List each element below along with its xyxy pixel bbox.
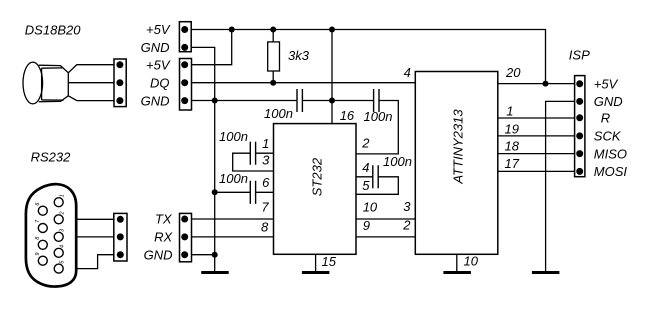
svg-text:1: 1 bbox=[506, 103, 513, 118]
wire resistor top lead bbox=[272, 30, 274, 42]
svg-text:5: 5 bbox=[362, 178, 370, 193]
capacitor C1 100n (ST232 pins 1-3) bbox=[250, 142, 255, 165]
wire TX row to ST232 pin 7 bbox=[185, 218, 274, 220]
wire ATTINY pin 1 to ISP R bbox=[498, 117, 580, 119]
node junction GND row left bbox=[212, 98, 218, 104]
wire ST232 pin 15 ground stub bbox=[315, 254, 317, 271]
capacitor C5 100n (VCC to GND decoupling) bbox=[297, 89, 302, 112]
node junction resistor top on +5V rail bbox=[270, 27, 276, 33]
svg-text:1: 1 bbox=[60, 194, 66, 197]
svg-text:DS18B20: DS18B20 bbox=[25, 22, 81, 37]
svg-text:3k3: 3k3 bbox=[288, 48, 310, 63]
wire C4 to GND bbox=[215, 191, 251, 193]
svg-text:SCK: SCK bbox=[594, 129, 622, 144]
svg-text:2: 2 bbox=[361, 136, 370, 151]
svg-text:GND: GND bbox=[594, 94, 623, 109]
svg-text:2: 2 bbox=[402, 217, 411, 232]
ground (ATTINY pin 10) bbox=[443, 271, 471, 274]
svg-text:7: 7 bbox=[261, 200, 269, 215]
node junction VCC at pin16 bbox=[329, 98, 335, 104]
wire ST232 pin 6 to C4 bbox=[256, 191, 274, 193]
svg-text:100n: 100n bbox=[219, 171, 248, 186]
wire DB9 pin 2 to plug bbox=[59, 218, 121, 220]
svg-text:20: 20 bbox=[505, 65, 521, 80]
wire GND row RS232 bbox=[185, 254, 215, 256]
wire DB9 pin 3 to plug bbox=[59, 236, 121, 238]
connector J3 TX/RX/GND bbox=[180, 213, 192, 261]
node junction on +5V rail at 3-pin connector bbox=[229, 27, 235, 33]
svg-text:ISP: ISP bbox=[569, 48, 590, 63]
resistor R1 3k3 bbox=[268, 42, 310, 71]
ground (ST232 pin 15) bbox=[302, 271, 330, 274]
wire ATTINY pin 10 ground stub bbox=[456, 254, 458, 271]
connector ISP header bbox=[575, 76, 585, 177]
svg-text:+5V: +5V bbox=[146, 22, 171, 37]
svg-text:3: 3 bbox=[403, 199, 411, 214]
wire C2 elbow to ST232 pin 5 bbox=[356, 177, 398, 195]
svg-text:+5V: +5V bbox=[146, 57, 171, 72]
wire C1 elbow to ST232 pin 3 bbox=[233, 153, 274, 171]
svg-text:2: 2 bbox=[60, 211, 66, 215]
svg-text:GND: GND bbox=[141, 40, 170, 55]
wire ST232 pin 9 to ATTINY pin 2 bbox=[356, 236, 415, 238]
svg-text:RS232: RS232 bbox=[31, 150, 72, 165]
svg-text:18: 18 bbox=[505, 139, 520, 154]
svg-text:1: 1 bbox=[262, 136, 269, 151]
DS18B20 sensor package bbox=[23, 62, 68, 104]
svg-text:3: 3 bbox=[262, 152, 270, 167]
svg-text:TX: TX bbox=[155, 212, 173, 227]
DB9 RS232 connector body bbox=[26, 184, 76, 286]
ground (ISP GND) bbox=[532, 271, 560, 274]
svg-text:RX: RX bbox=[154, 230, 173, 245]
wire DS18B20 lead 3 bbox=[68, 96, 120, 101]
wire RX row to ST232 pin 8 bbox=[185, 236, 274, 238]
svg-text:10: 10 bbox=[464, 254, 479, 269]
wire ATTINY pin 17 to ISP MOSI bbox=[498, 170, 580, 172]
svg-text:8: 8 bbox=[261, 219, 269, 234]
wire resistor bottom lead bbox=[272, 71, 274, 83]
svg-text:100n: 100n bbox=[364, 109, 393, 124]
wire ST232 pin 16 vertical bbox=[331, 30, 333, 124]
node junction RS232 GND bbox=[212, 252, 218, 258]
svg-text:16: 16 bbox=[340, 108, 355, 123]
wire +5V top rail bbox=[185, 30, 546, 84]
wire ST232 pin 10 to ATTINY pin 3 bbox=[356, 218, 415, 220]
wire ATTINY pin 18 to ISP MISO bbox=[498, 153, 580, 155]
capacitor C3 100n (VCC to ST232 pin 2) bbox=[374, 89, 379, 112]
ground (RS232 section) bbox=[201, 271, 229, 274]
svg-text:17: 17 bbox=[505, 156, 520, 171]
wire DS18B20 lead 2 bbox=[68, 82, 120, 84]
wire ST232 pin 4 to C2 bbox=[356, 176, 373, 178]
svg-text:ATTINY2313: ATTINY2313 bbox=[450, 109, 465, 185]
wire ATTINY pin 20 to ISP +5V bbox=[498, 83, 580, 85]
svg-text:+5V: +5V bbox=[594, 77, 619, 92]
IC U1 ST232 (RS232 driver) bbox=[274, 124, 357, 255]
svg-text:15: 15 bbox=[322, 254, 337, 269]
node junction resistor bottom on DQ bbox=[270, 80, 276, 86]
svg-text:R: R bbox=[601, 111, 610, 126]
wire C3 to ST232 pin 2 bbox=[356, 101, 398, 154]
node junction pin16 vertical on +5V rail bbox=[329, 27, 335, 33]
wire ATTINY pin 19 to ISP SCK bbox=[498, 135, 580, 137]
svg-text:4: 4 bbox=[404, 65, 411, 80]
svg-text:100n: 100n bbox=[219, 129, 248, 144]
connector DS18B20 plug bbox=[114, 59, 126, 107]
svg-text:19: 19 bbox=[505, 122, 519, 137]
svg-text:9: 9 bbox=[363, 218, 370, 233]
wire +5V elbow to 3-pin connector bbox=[185, 30, 232, 65]
svg-text:MOSI: MOSI bbox=[594, 164, 628, 179]
svg-text:MISO: MISO bbox=[594, 146, 627, 161]
svg-text:100n: 100n bbox=[264, 106, 293, 121]
DB9 pin holes column 1 bbox=[38, 198, 63, 273]
capacitor C2 100n (ST232 pins 4-5) bbox=[373, 165, 378, 188]
svg-text:4: 4 bbox=[60, 245, 66, 248]
wire DB9 pin 5 to plug GND bbox=[59, 255, 121, 269]
svg-text:4: 4 bbox=[362, 160, 369, 175]
svg-text:GND: GND bbox=[141, 93, 170, 108]
wire DS18B20 lead 1 bbox=[68, 65, 120, 73]
svg-text:9: 9 bbox=[35, 253, 41, 256]
capacitor C4 100n (ST232 pin 6 to GND) bbox=[250, 181, 255, 204]
IC U2 ATTINY2313 (microcontroller) bbox=[415, 72, 498, 255]
wire GND vertical main bbox=[185, 47, 215, 271]
wire DQ row bbox=[185, 82, 416, 84]
wire ISP GND elbow to ground bbox=[546, 101, 580, 271]
svg-text:ST232: ST232 bbox=[309, 157, 324, 196]
connector J1 2-pin +5V/GND bbox=[179, 22, 191, 52]
svg-text:100n: 100n bbox=[383, 154, 412, 169]
svg-text:GND: GND bbox=[144, 247, 173, 262]
wire VCC segment between capacitors bbox=[302, 100, 373, 102]
svg-text:6: 6 bbox=[262, 175, 270, 190]
connector RS232 plug bbox=[114, 213, 127, 261]
node junction C4 to GND bbox=[212, 189, 218, 195]
svg-text:DQ: DQ bbox=[150, 75, 170, 90]
wire ST232 pin 1 to C1 bbox=[256, 152, 274, 154]
wire GND row to capacitor bbox=[185, 100, 297, 102]
node junction +5V at ISP row bbox=[543, 81, 549, 87]
connector J2 3-pin +5V/DQ/GND bbox=[180, 59, 192, 111]
svg-text:10: 10 bbox=[363, 200, 378, 215]
